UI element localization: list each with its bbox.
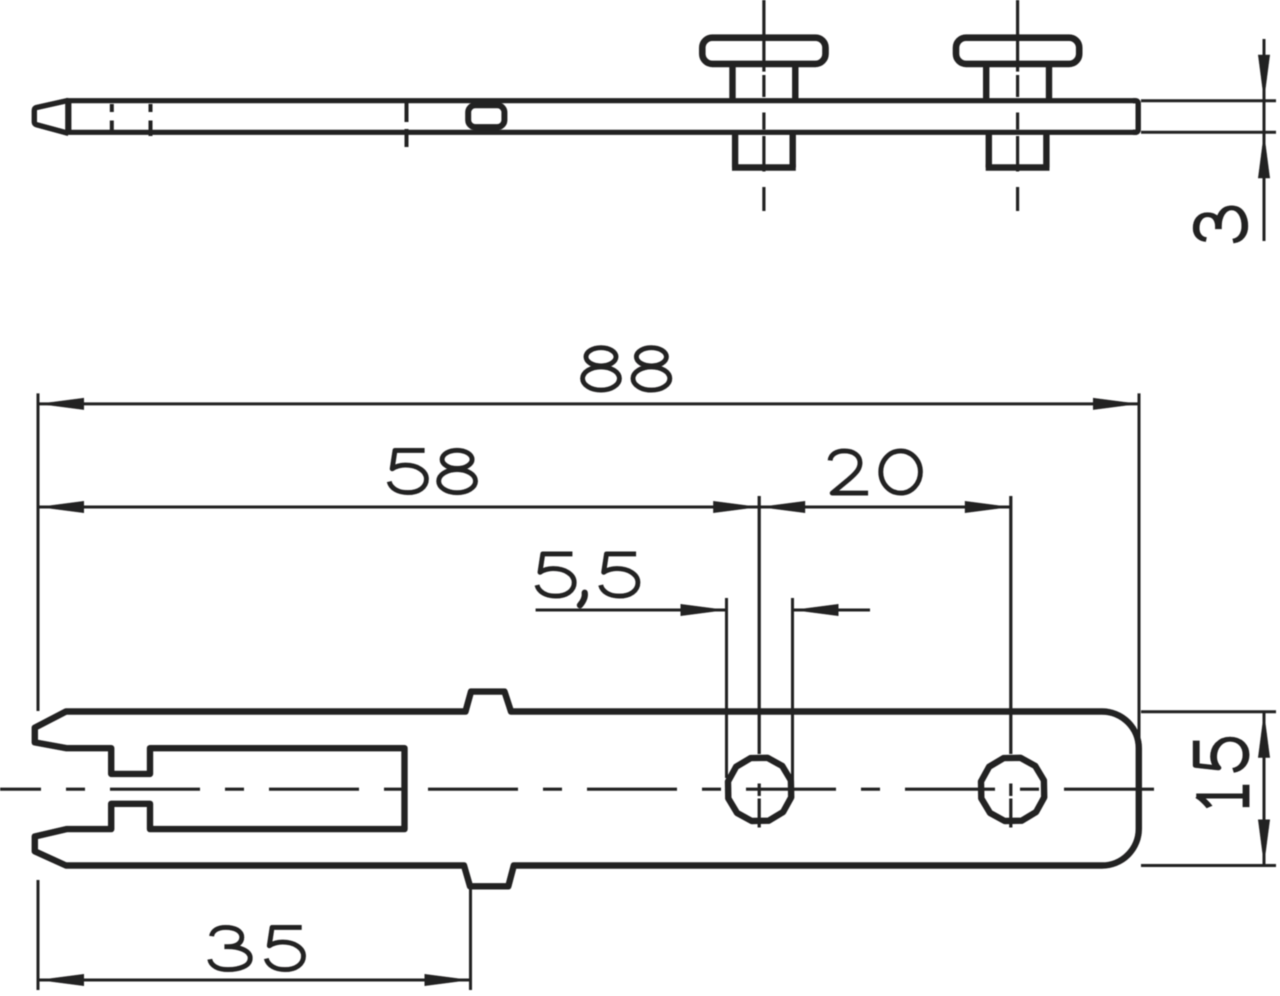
plan view: part outline with fork slot	[35, 692, 1139, 887]
hole 2	[981, 758, 1044, 821]
dimension text 88	[583, 348, 620, 390]
dimension text 3 (rotated)	[1196, 208, 1245, 241]
dimension text 20	[830, 451, 868, 493]
dimension 20 line	[759, 506, 1011, 509]
screw 2 (right)	[956, 38, 1079, 64]
extension line hole1 left tangent	[725, 598, 728, 778]
dimension 3: line and arrows	[1263, 39, 1266, 241]
dimension text 35	[210, 927, 250, 969]
side view: hidden edge dashes at x=406 (slot end)	[405, 103, 409, 122]
dimension 58 line	[38, 506, 759, 509]
side view: notch window	[468, 105, 504, 127]
thickness extension line top	[1141, 99, 1276, 102]
screw 1 centerline	[762, 0, 765, 72]
side view: hidden edge dashes at x=150	[149, 104, 153, 112]
extension line hole1 right tangent	[791, 598, 794, 782]
extension line for 35 at notch	[469, 888, 472, 990]
extension line part bottom right	[1141, 864, 1276, 867]
hole 1	[728, 758, 791, 821]
dimension 88 line	[38, 402, 1139, 405]
side view: bar right end cap	[1133, 101, 1138, 133]
extension line at right end x=1139	[1138, 393, 1141, 740]
side view: left tip outline	[34, 100, 68, 133]
side view: hidden edge dashes at x=112	[110, 104, 114, 112]
side view: tip chamfer edge	[65, 101, 71, 133]
horizontal centerline	[0, 788, 1157, 791]
dimension text 58	[389, 450, 426, 492]
dimension text 15 (rotated)	[1196, 739, 1246, 770]
side view: bar bottom edge	[66, 130, 1136, 135]
hole 2 centerline / 20 extension	[1009, 496, 1012, 754]
dimension 15 line	[1263, 712, 1266, 866]
dimension 35 line	[38, 979, 471, 982]
screw 2 centerline	[1016, 0, 1019, 72]
extension line at left end x=38	[37, 393, 40, 711]
extension line part top right	[1141, 710, 1276, 713]
dimension 5,5 line	[536, 609, 727, 612]
hole 1 centerline / 58 extension	[758, 496, 761, 754]
thickness extension line bottom	[1141, 131, 1276, 134]
screw 1 (left)	[702, 38, 825, 64]
side view: bar top edge	[66, 98, 1136, 103]
dimension text 5,5	[537, 554, 574, 596]
